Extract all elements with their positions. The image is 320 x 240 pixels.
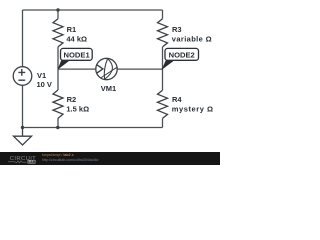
wire node2 to R4 [162,47,164,90]
wire R4 bottom [162,118,164,127]
wire node1 to R2 [57,47,59,90]
footer url text [42,158,99,162]
label R2 [67,95,77,104]
resistor R4 [158,90,168,118]
svg-text:VM1: VM1 [101,84,116,93]
svg-text:tonyst/ampi / lab2 c: tonyst/ampi / lab2 c [42,153,74,157]
wire node1 to voltmeter [58,68,96,70]
wire R3 branch [162,10,164,19]
label R1 value 44 kΩ [66,34,87,43]
resistor R3 [158,19,168,47]
label R3 [172,25,182,34]
ground [14,128,32,146]
resistor R1 [53,19,63,47]
svg-text:V1: V1 [37,71,46,80]
footer CircuitLab logo [8,156,36,164]
label R4 [172,95,182,104]
svg-text:http://circuitlab.com/c/d9a394: http://circuitlab.com/c/d9a394da48v [42,158,99,162]
svg-text:R1: R1 [67,25,77,34]
junction dot bottom of R2 [56,126,59,129]
footer bar [0,152,220,165]
label V1 [37,71,46,80]
label R1 [67,25,77,34]
label VM1 [101,84,116,93]
svg-text:variable Ω: variable Ω [172,34,212,43]
voltmeter VM1 [96,58,117,79]
node NODE1 callout [58,48,93,69]
node NODE2 callout [162,48,199,70]
svg-text:44 kΩ: 44 kΩ [66,34,87,43]
label V1 value 10 V [37,80,52,89]
wire left rail lower [22,85,24,127]
svg-text:NODE2: NODE2 [169,51,195,60]
label R4 value mystery Ω [172,105,214,114]
label R2 value 1.5 kΩ [66,105,89,114]
svg-text:NODE1: NODE1 [64,51,91,60]
svg-text:10 V: 10 V [37,80,52,89]
label R3 value variable Ω [172,34,212,43]
svg-text:mystery Ω: mystery Ω [172,105,214,114]
svg-text:R2: R2 [67,95,77,104]
junction dot bottom left [21,126,24,129]
svg-text:LAB: LAB [28,160,36,164]
wire bottom rail [23,127,163,129]
junction dot top of R1 [56,8,59,11]
voltage source V1 [13,67,32,86]
wire R1 branch [57,10,59,19]
footer user text [42,153,74,157]
wire left rail upper [22,10,24,67]
wire top rail [23,9,163,11]
svg-text:R3: R3 [172,25,182,34]
svg-text:1.5 kΩ: 1.5 kΩ [66,105,89,114]
wire R2 bottom [57,118,59,127]
wire voltmeter to node2 [117,68,162,70]
svg-text:R4: R4 [172,95,182,104]
resistor R2 [53,90,63,118]
